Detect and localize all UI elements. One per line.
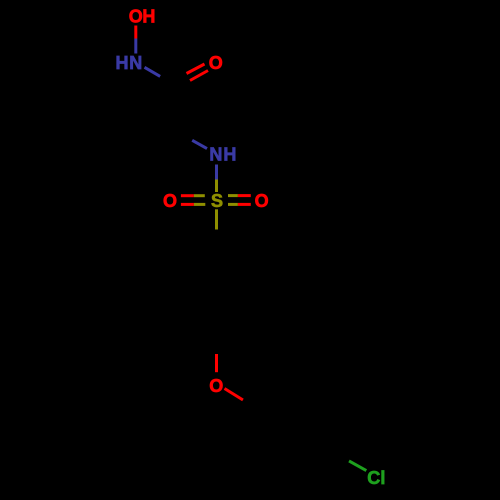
bond C1-C2 (black) [174,86,177,132]
double bond S=O4 upper line (S half, olive) [228,194,238,197]
svg-text:H: H [116,53,129,73]
bond O5-C9 (C half, black) [243,400,256,408]
bond O5-C9 (O half, red) [225,389,244,401]
svg-text:S: S [211,191,223,211]
ring 2 inner aromatic lines (black) [264,393,330,471]
svg-text:O: O [129,7,143,27]
double bond S=O4 lower line (S half, olive) [228,203,238,206]
double bond S=O3 upper line (S half, olive) [194,194,205,197]
double bond C1=O2 upper line (O half, red) [187,64,205,74]
svg-text:O: O [163,191,177,211]
double bond S=O4 lower line (O half, red) [238,203,251,206]
bond C6-O5 (C half, black) [215,339,218,354]
benzene ring 1 (black, invisible on black bg) [176,246,256,339]
bond C6-O5 (O half, red) [215,354,218,372]
bond C2-N2 (N half, blue) [192,140,207,148]
bond C2-N2 (C half, black) [176,132,192,141]
bond S-C3 (S half, olive) [215,209,218,229]
svg-text:N: N [209,144,222,164]
svg-text:l: l [380,468,385,488]
bond N1-C1 (N half, blue) [145,67,161,76]
ring 1 inner aromatic lines (black) [192,250,249,334]
bond O1-N1 (O half, red) [134,26,137,39]
double bond S=O3 lower line (O half, red) [181,203,194,206]
bond C12-Cl (Cl half, green) [349,461,366,471]
svg-text:C: C [367,468,380,488]
bond S-C3 (C half, black) [215,230,218,246]
svg-text:H: H [142,7,155,27]
benzene ring 2 (black, invisible on black bg) [256,385,336,478]
double bond C1=O2 upper line (C half, black) [174,74,187,82]
svg-text:O: O [255,191,269,211]
svg-text:N: N [129,53,142,73]
double bond S=O3 lower line (S half, olive) [194,203,205,206]
bond N2-S (S half, olive) [215,180,218,193]
double bond C1=O2 lower line (O half, red) [190,71,208,81]
bond C12-Cl (C half, black) [337,455,349,461]
double bond S=O4 upper line (O half, red) [238,194,251,197]
svg-text:O: O [209,376,223,396]
bond N2-S (N half, blue) [215,165,218,180]
double bond S=O3 upper line (O half, red) [181,194,194,197]
svg-text:H: H [223,144,236,164]
bond O1-N1 (N half, blue) [134,39,137,54]
double bond C1=O2 lower line (C half, black) [178,81,190,89]
bond N1-C1 (C half, black) [160,76,176,85]
svg-text:O: O [209,53,223,73]
